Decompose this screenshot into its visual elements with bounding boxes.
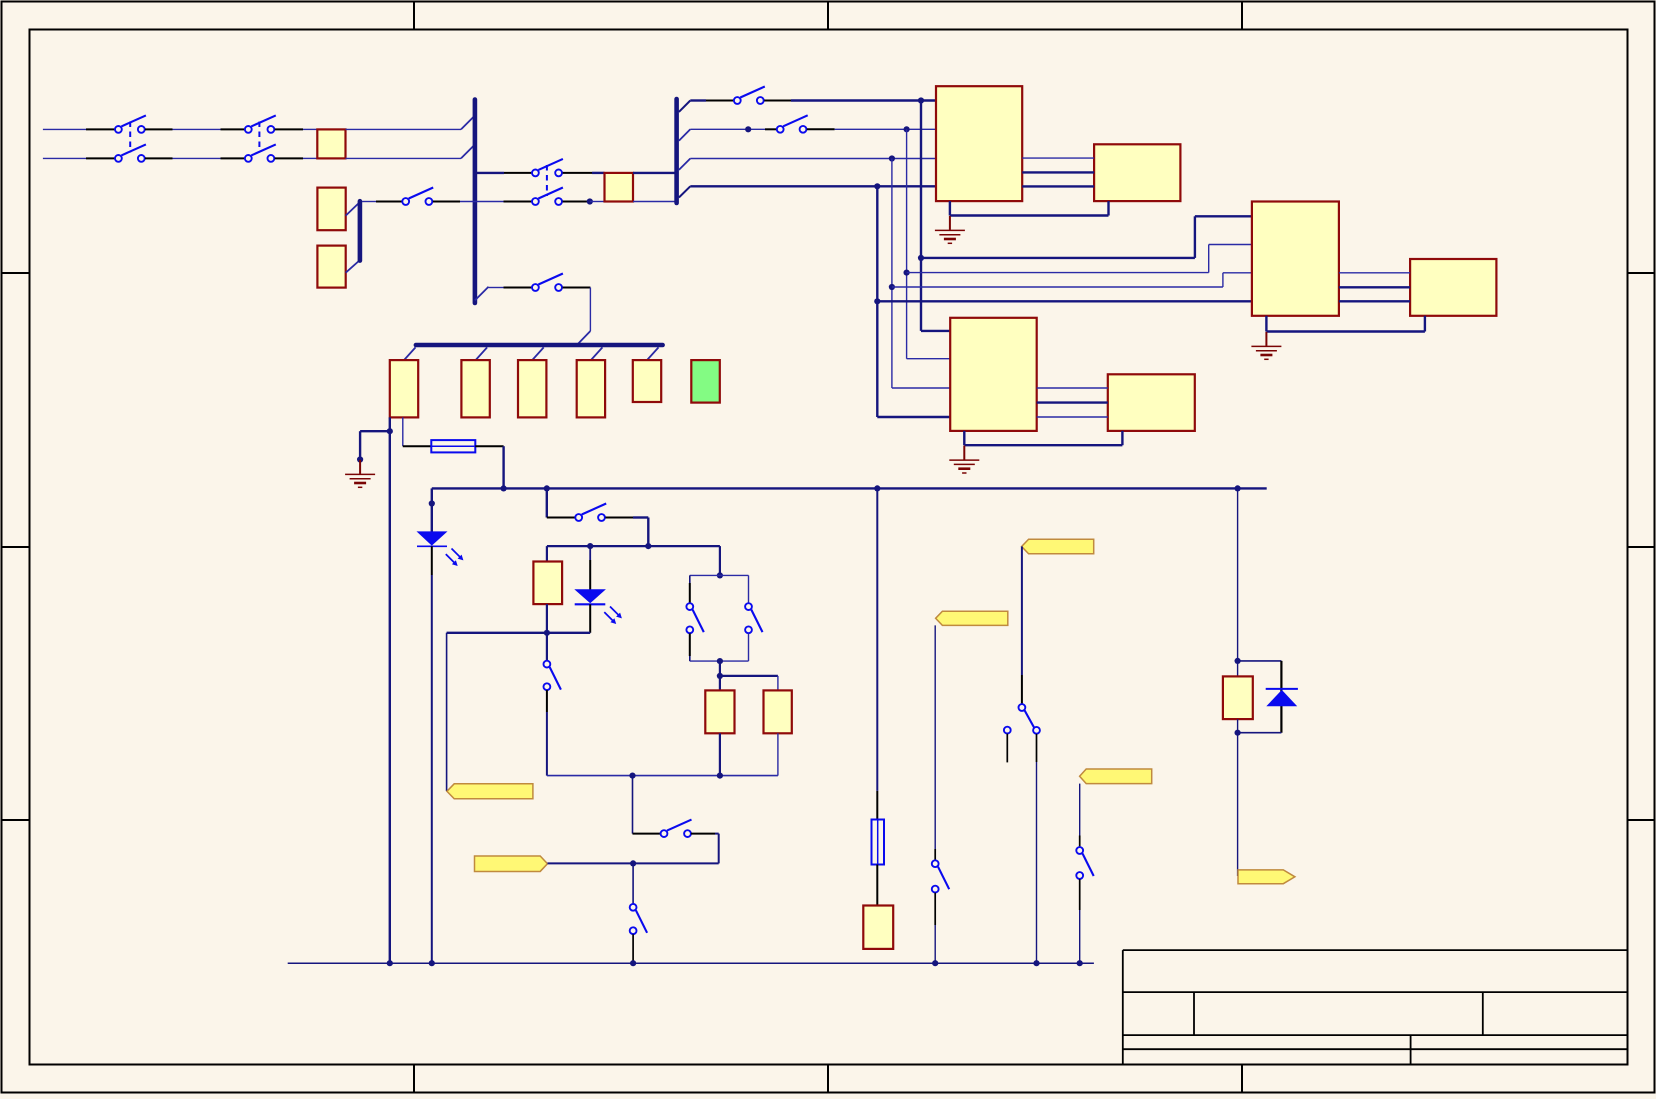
breaker K1 <box>317 129 345 158</box>
switch SW8 <box>575 504 606 521</box>
flag NF1 <box>447 784 533 799</box>
switch SW14 SPDT <box>1004 704 1040 734</box>
wire R2 down <box>719 733 721 775</box>
indicator G1 green <box>691 360 720 403</box>
bus entry L2 <box>461 145 475 159</box>
wires U3 to U3B <box>1037 388 1108 417</box>
wire V2 to U3 pin3 <box>892 387 950 389</box>
main rail N2 <box>432 485 1267 491</box>
wire V1 to U2 pin4 <box>877 300 1252 302</box>
wire V1 to U3 pin4 <box>877 416 950 418</box>
wire SW5 to bus B3 <box>563 288 591 345</box>
entry load F3 <box>532 347 544 360</box>
wire L1 incoming <box>43 128 115 130</box>
resistor R3 <box>764 690 792 733</box>
load F2 <box>461 360 489 417</box>
bus B2 <box>674 99 679 203</box>
wire down to flag NF1 <box>446 633 448 791</box>
bus exit B <box>679 129 690 140</box>
bus B1 <box>473 100 478 304</box>
wire F1 pin2 to fuse <box>403 417 432 446</box>
wire row N6 <box>547 773 778 779</box>
switch SW10 parallel pair <box>686 575 762 661</box>
wire V4 to U2 pin1 <box>921 216 1252 258</box>
switch SW4 double-pole <box>532 159 563 205</box>
fuse FU2 <box>872 820 885 865</box>
flag NF5 <box>1080 769 1152 784</box>
wire L2 span <box>145 157 245 159</box>
node N8 <box>1235 719 1241 736</box>
flag NF2 <box>475 856 548 872</box>
wire U2 U2B common bottom <box>1266 316 1425 332</box>
wire NF5 down <box>1079 784 1081 848</box>
flag NF3 <box>936 611 1008 625</box>
lead fuse to load <box>876 865 878 906</box>
wire to LED2 <box>589 546 591 589</box>
bottom rail N9 <box>288 960 1094 966</box>
wires U1 to U1B <box>1022 158 1094 186</box>
wire K4 to bus B2 <box>633 173 677 202</box>
wire LED2 down <box>589 604 591 633</box>
wire V4 to U3 pin1 <box>921 330 950 332</box>
bus entry L1 <box>461 116 475 130</box>
lead to fuse FU2 <box>876 791 878 820</box>
wire to SW5 <box>489 287 532 289</box>
module U2B <box>1410 259 1496 316</box>
wire SW4 to K4 top <box>563 172 605 174</box>
wire SW8 to node N3 <box>606 518 649 547</box>
resistor R1 <box>533 562 562 605</box>
bus exit A <box>679 101 690 112</box>
wire to flag NF6 <box>1237 733 1239 876</box>
wire to K1 <box>275 129 318 158</box>
wire N5 to R3 <box>720 676 778 691</box>
ground GND1 <box>935 216 965 243</box>
switch SW1 double-pole <box>115 115 146 161</box>
ground GND4 <box>345 460 375 488</box>
source K2 <box>317 188 345 231</box>
ground GND3 <box>949 446 979 473</box>
switch SW2 double-pole <box>245 115 276 161</box>
entry load F4 <box>591 347 603 360</box>
switch SW13 vertical <box>932 860 949 892</box>
wire N7 down <box>632 863 634 904</box>
bus B3 <box>416 343 663 348</box>
wire bar to SW3 <box>362 201 402 203</box>
switch SW9 vertical <box>544 661 561 690</box>
flag NF4 <box>1022 539 1094 554</box>
wire SW14 to bottom rail <box>1036 734 1038 963</box>
node N4 <box>544 604 550 661</box>
switch SW7 <box>777 115 808 132</box>
module U1 <box>936 86 1022 201</box>
wire SW3 to bus B2 crossing B1 <box>433 201 532 203</box>
switch SW6 <box>734 87 765 104</box>
vertical V1 <box>874 186 880 417</box>
switch SW12 vertical <box>630 904 647 934</box>
vertical V2 <box>889 159 895 389</box>
switch SW15 vertical <box>1076 847 1093 879</box>
stub throw terminal <box>1006 734 1008 763</box>
resistor R2 <box>705 690 734 733</box>
entry load F5 <box>647 347 659 360</box>
wire rail to SW8 <box>547 488 576 517</box>
wire L2 incoming <box>43 157 115 159</box>
ground GND2 <box>1251 332 1281 359</box>
wire to ground tap <box>357 431 390 462</box>
fuse FU1 <box>431 440 475 452</box>
wire NF3 down <box>934 625 936 860</box>
load K5 <box>863 906 893 949</box>
module U3 <box>950 318 1036 431</box>
resistor R4 <box>1223 676 1253 719</box>
LED D1 <box>417 531 464 566</box>
wire SW13 to bottom rail <box>934 893 936 964</box>
load F1 <box>390 360 418 417</box>
wire NF4 down <box>1021 547 1023 705</box>
module U1B <box>1094 144 1180 201</box>
bus exit C <box>679 159 690 170</box>
wire SW11 to N7 <box>691 834 719 864</box>
wire U3 U3B common bottom <box>964 431 1122 445</box>
load F3 <box>518 360 546 417</box>
bus exit B1 bottom <box>475 287 489 301</box>
wire B1 to SW4 <box>477 172 531 174</box>
wire N6 down <box>632 776 634 834</box>
wire V2 to U2 pin3 <box>892 273 1252 287</box>
entry K2 to bar <box>346 203 360 216</box>
module U2 <box>1252 202 1339 316</box>
wire SW9 down <box>546 690 548 776</box>
mini bus B1a <box>358 201 363 260</box>
vertical V3 <box>904 129 910 358</box>
node N5 <box>717 658 723 690</box>
wire N3 row <box>547 543 720 549</box>
switch SW5 <box>532 274 563 291</box>
wire rail down right <box>876 488 878 791</box>
breaker K4 <box>605 173 634 202</box>
LED D2 <box>574 589 622 624</box>
diode D3 parallel branch <box>1238 661 1298 733</box>
flag NF6 <box>1238 870 1295 884</box>
wire SW12 to bottom rail <box>632 934 634 963</box>
switch SW3 <box>402 188 433 205</box>
bus exit D <box>679 186 690 197</box>
wire R3 down <box>777 733 779 775</box>
wire row N4 <box>447 632 591 634</box>
wire D to IC1 pin4 <box>690 183 936 189</box>
entry K3 to bar <box>346 261 360 273</box>
node N1 <box>563 198 605 204</box>
wire B to IC1 pin2 <box>807 126 936 132</box>
load F5 <box>633 360 661 402</box>
wire A to IC1 pin1 <box>764 97 936 103</box>
wire V3 to U2 pin2 <box>907 245 1252 273</box>
wire C to IC1 pin3 <box>690 155 936 161</box>
wire N3 to parallel switches <box>717 546 723 578</box>
wire A <box>690 99 734 101</box>
load F4 <box>577 360 605 417</box>
wire fuse to main rail <box>475 446 503 488</box>
wire V3 to U3 pin2 <box>907 358 951 360</box>
wire to R1 <box>546 546 548 561</box>
wire B node <box>690 126 777 132</box>
wire L1 span <box>145 128 245 130</box>
wire U1 U1B common bottom <box>950 201 1109 215</box>
entry load F1 <box>404 347 416 360</box>
wire row N7 <box>548 860 719 866</box>
switch SW11 <box>633 820 692 837</box>
wire rail down to R4 <box>1235 488 1241 676</box>
source K3 <box>317 246 345 288</box>
vertical V4 <box>918 101 924 331</box>
entry load F2 <box>476 347 488 360</box>
wire K1 to bus B1 <box>346 129 462 158</box>
wire SW15 to bottom rail <box>1079 879 1081 963</box>
wire LED1 to bottom rail <box>431 546 433 963</box>
wire F1 down <box>387 417 393 963</box>
module U3B <box>1108 374 1195 431</box>
wire rail down to LED1 <box>429 488 435 531</box>
wires U2 to U2B <box>1339 273 1410 302</box>
